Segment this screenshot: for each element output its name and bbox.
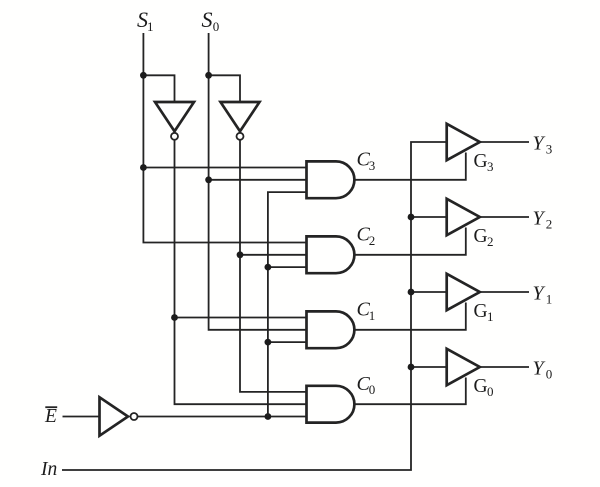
junction S1/inverter branch — [140, 72, 147, 79]
node E-bar label — [44, 406, 57, 427]
junction In/G2 — [408, 214, 415, 221]
junction E'/C1 — [265, 339, 272, 346]
svg-text:0: 0 — [213, 19, 220, 34]
junction S1'/C1 — [171, 314, 178, 321]
svg-text:1: 1 — [487, 309, 494, 324]
junction In/G0 — [408, 364, 415, 371]
svg-text:E: E — [44, 406, 57, 427]
wire C3 output to G3 enable — [354, 153, 465, 180]
label C2 — [357, 224, 376, 248]
junction E' branch — [265, 413, 272, 420]
node S1 label — [137, 7, 154, 34]
junction E'/C2 — [265, 264, 272, 271]
wire S0' vertical down to C0 input 1 — [240, 140, 307, 392]
label G0 — [474, 376, 494, 399]
svg-text:0: 0 — [487, 384, 494, 399]
wire In branch to G0 input — [411, 366, 447, 368]
and-gate C1 — [307, 311, 355, 348]
svg-text:G: G — [474, 151, 488, 172]
wire S1' vertical down to C0 input 2 — [175, 140, 307, 404]
svg-text:G: G — [474, 226, 488, 247]
svg-text:Y: Y — [533, 283, 546, 305]
wire C0 output to G0 enable — [354, 378, 465, 405]
label C1 — [357, 299, 376, 323]
wire S0' branch to C2 input 2 — [240, 254, 307, 256]
node Y3 label — [533, 133, 553, 157]
wire S1' branch to C1 input 1 — [175, 317, 308, 319]
junction S1/C3 — [140, 164, 147, 171]
wire Y0 output — [480, 366, 529, 368]
svg-text:In: In — [40, 459, 57, 480]
and-gate C2 — [307, 236, 355, 273]
node Y0 label — [533, 358, 553, 382]
svg-text:2: 2 — [546, 217, 553, 232]
junction In/G1 — [408, 289, 415, 296]
junction S0/C3 — [205, 176, 212, 183]
wire In horizontal and vertical up to G3 input — [62, 142, 447, 470]
buffer G2 — [447, 199, 480, 235]
svg-text:3: 3 — [369, 158, 376, 173]
svg-text:Y: Y — [533, 358, 546, 380]
label C3 — [357, 149, 376, 173]
svg-text:1: 1 — [147, 19, 154, 34]
svg-text:Y: Y — [533, 208, 546, 230]
junction S0/inverter branch — [205, 72, 212, 79]
svg-text:Y: Y — [533, 133, 546, 155]
wire S1 to C3 input 1 — [143, 167, 307, 169]
node Y1 label — [533, 283, 553, 307]
wire Y2 output — [480, 216, 529, 218]
svg-text:1: 1 — [369, 308, 376, 323]
svg-text:G: G — [474, 376, 488, 397]
svg-text:2: 2 — [487, 234, 494, 249]
wire S1 vertical down to C2 input 1 — [143, 33, 307, 243]
and-gate C3 — [307, 161, 355, 198]
wire S0 to C3 input 2 — [209, 179, 307, 181]
wire In branch to G2 input — [411, 216, 447, 218]
wire C2 output to G2 enable — [354, 228, 465, 255]
inverter U2 (S0 complement) — [221, 102, 260, 140]
svg-text:S: S — [202, 7, 213, 32]
svg-text:1: 1 — [546, 292, 553, 307]
svg-text:0: 0 — [369, 382, 376, 397]
wire In branch to G1 input — [411, 291, 447, 293]
wire E' branch to C1 input 3 — [268, 341, 307, 343]
inverter U3 (enable) — [100, 397, 138, 435]
label G3 — [474, 151, 494, 174]
wire E' vertical up to C3 input 3 — [268, 192, 307, 416]
label G2 — [474, 226, 494, 249]
svg-text:3: 3 — [487, 159, 494, 174]
svg-text:3: 3 — [546, 142, 553, 157]
wire S1 branch to inverter U1 — [143, 75, 174, 102]
wire S0 branch to inverter U2 — [209, 75, 240, 102]
node Y2 label — [533, 208, 553, 232]
and-gate C0 — [307, 386, 355, 423]
junction S0'/C2 — [237, 251, 244, 258]
buffer G3 — [447, 124, 480, 160]
wire S0 vertical down to C1 input 2 — [209, 33, 307, 330]
wire Y3 output — [480, 141, 529, 143]
wire Y1 output — [480, 291, 529, 293]
buffer G0 — [447, 349, 480, 385]
wire C1 output to G1 enable — [354, 303, 465, 330]
svg-text:G: G — [474, 301, 488, 322]
svg-text:2: 2 — [369, 233, 376, 248]
label G1 — [474, 301, 494, 324]
buffer G1 — [447, 274, 480, 310]
label C0 — [357, 373, 376, 397]
svg-text:0: 0 — [546, 367, 553, 382]
wire E' branch to C2 input 3 — [268, 266, 307, 268]
wire E' horizontal to C0 input 3 — [138, 416, 307, 418]
inverter U1 (S1 complement) — [155, 102, 194, 140]
wire E input — [63, 416, 100, 418]
node S0 label — [202, 7, 220, 34]
node In label — [40, 459, 57, 480]
overbar of E — [45, 406, 57, 408]
